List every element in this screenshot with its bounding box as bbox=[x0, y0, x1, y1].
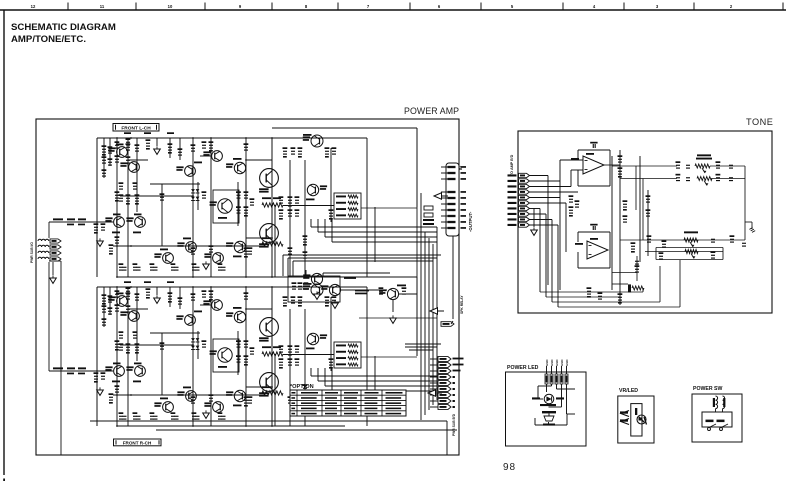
transistor Q13 vas top ch1 bbox=[311, 284, 323, 296]
power amp section border bbox=[36, 119, 459, 455]
bias box ch0 bbox=[213, 190, 239, 223]
transistor Q6 ch0 bbox=[185, 166, 196, 177]
svg-text:POWER AMP: POWER AMP bbox=[404, 106, 459, 116]
wire output staircase ch1 bbox=[310, 368, 312, 376]
wire bundle mid bbox=[405, 343, 441, 345]
op-amp U2 bbox=[587, 241, 608, 259]
op-amp U2 feedback loop bbox=[578, 231, 610, 233]
label box FRONT L-CH bbox=[113, 124, 159, 132]
ruler line bbox=[0, 9, 786, 11]
transistor Q31 protect bbox=[311, 273, 322, 284]
svg-text:11: 11 bbox=[100, 4, 105, 9]
svg-text:GND: GND bbox=[550, 360, 554, 366]
svg-text:98: 98 bbox=[503, 462, 516, 473]
relay box ch1 bbox=[334, 342, 361, 368]
resistors top row ch1 bbox=[126, 291, 130, 292]
led D1 bbox=[544, 394, 554, 404]
svg-text:GND: GND bbox=[560, 360, 564, 366]
power transistor Q15 ch0 bbox=[260, 169, 279, 188]
junction dots ch0 bbox=[116, 137, 118, 139]
tone VR603 resistor bbox=[684, 238, 698, 242]
resistors collector ch0 bbox=[283, 151, 287, 152]
svg-text:FRONT R-CH: FRONT R-CH bbox=[123, 441, 152, 446]
junction dots ch1 bbox=[116, 286, 118, 288]
wire emitter bus ch1 bbox=[113, 394, 264, 396]
vr led box bbox=[618, 396, 654, 443]
svg-text:VR/LED: VR/LED bbox=[619, 388, 638, 394]
emitter resistors upper ch1 bbox=[325, 300, 329, 301]
tone VR volume bbox=[632, 286, 644, 290]
resistors top row ch0 bbox=[126, 142, 130, 143]
wire main input lower bbox=[48, 262, 50, 371]
photo device bbox=[542, 411, 556, 413]
option table bbox=[290, 390, 406, 416]
power sw contacts bbox=[706, 420, 714, 423]
pins upper right bbox=[448, 166, 456, 168]
svg-text:*OPTION: *OPTION bbox=[290, 384, 314, 390]
transistor Q2 input B ch0 bbox=[135, 217, 146, 228]
resistors under Q14 ch0 bbox=[279, 200, 283, 201]
wire input ch0 bbox=[49, 221, 113, 223]
transistor Q14 pre driver ch1 bbox=[307, 333, 318, 344]
tone mid components bbox=[569, 199, 573, 200]
capacitor C1 ch1 bbox=[115, 344, 119, 345]
wire verticals ch0 bbox=[103, 138, 105, 170]
resistors extra bottom ch1 bbox=[191, 400, 195, 401]
diode stack ch0 bbox=[191, 189, 195, 192]
ground G1 ch0 bbox=[156, 146, 158, 149]
op-amp U1 bbox=[583, 156, 604, 174]
transistor Q4 ch0 bbox=[129, 162, 140, 173]
wire protect out bbox=[359, 317, 437, 319]
transistor Q33 protect bbox=[387, 288, 398, 299]
transistor Q11 driver ch0 bbox=[234, 241, 245, 252]
power sw inner box bbox=[702, 412, 732, 427]
power sw coils bbox=[716, 396, 718, 409]
tone VR604 resistor bbox=[685, 250, 698, 254]
left page border bbox=[3, 10, 5, 475]
transistor Q8 ch0 bbox=[212, 151, 223, 162]
resistors near bias ch0 bbox=[244, 195, 248, 196]
vr arrows bbox=[621, 411, 629, 417]
resistors input bias ch0 bbox=[102, 149, 106, 150]
transistor Q3 ch0 bbox=[117, 147, 128, 158]
svg-text:POWER SW: POWER SW bbox=[693, 386, 722, 392]
svg-text:B+: B+ bbox=[459, 166, 463, 170]
resistors extra top ch1 bbox=[115, 294, 119, 295]
transistor Q1 input A ch1 bbox=[114, 366, 125, 377]
resistor mid ch0 bbox=[119, 198, 123, 199]
op-amp U1 feedback loop bbox=[578, 149, 610, 151]
wire input ch1 bbox=[49, 370, 113, 372]
ground G left bbox=[52, 275, 54, 278]
wire verticals ch1 bbox=[103, 287, 105, 319]
wire output staircase ch0 bbox=[310, 219, 312, 227]
pin labels lower right bbox=[453, 358, 464, 360]
svg-text:GND: GND bbox=[565, 360, 569, 366]
transistor Q5 current source ch1 bbox=[163, 402, 174, 413]
svg-text:TONE: TONE bbox=[746, 117, 773, 127]
resistors bottom row ch1 bbox=[109, 397, 113, 398]
wire bottom rail ch1 bbox=[117, 425, 345, 427]
ground G1 ch1 bbox=[156, 295, 158, 298]
wire trunk verticals right bbox=[416, 207, 418, 294]
power led bottom wires bbox=[548, 422, 550, 425]
left border bottom mark bbox=[3, 479, 5, 481]
relay box ch0 bbox=[334, 193, 361, 219]
svg-text:AMP/TONE/ETC.: AMP/TONE/ETC. bbox=[11, 34, 86, 45]
transistor Q8 ch1 bbox=[212, 300, 223, 311]
resistor mid ch1 bbox=[119, 347, 123, 348]
wire bundle lower bbox=[90, 420, 447, 422]
thermal resistor TH ch0 bbox=[262, 203, 283, 207]
tone bottom components bbox=[587, 291, 591, 292]
wire coil drop bbox=[60, 261, 62, 455]
svg-text:PWR SUB B'D: PWR SUB B'D bbox=[452, 413, 456, 436]
ground tone right bbox=[745, 221, 752, 223]
transistor Q12 bias ch1 bbox=[218, 348, 232, 362]
vr led circle bbox=[637, 415, 646, 424]
wire protect links bbox=[305, 270, 307, 276]
svg-text:SCHEMATIC DIAGRAM: SCHEMATIC DIAGRAM bbox=[11, 22, 116, 33]
pin labels upper right bbox=[461, 166, 467, 168]
wire collector trunk ch0 bbox=[271, 138, 273, 277]
connector coils PWR bbox=[38, 239, 49, 241]
transistor Q7 ch0 bbox=[186, 242, 197, 253]
transistor Q9 ch0 bbox=[213, 253, 224, 264]
wire left rail ch1 bbox=[96, 287, 98, 426]
wire mid horiz ch1 bbox=[150, 332, 200, 334]
tone out wires upper bbox=[604, 164, 620, 166]
emitter resistors upper ch0 bbox=[325, 151, 329, 152]
tone pin strip bbox=[519, 173, 530, 177]
wire emitter bus ch0 bbox=[113, 245, 264, 247]
transistor Q12 bias ch0 bbox=[218, 199, 232, 213]
resistors input bias ch1 bbox=[102, 298, 106, 299]
resistors extra bottom ch0 bbox=[191, 251, 195, 252]
tone VR601 resistor bbox=[695, 164, 710, 168]
tone mid verticals bbox=[611, 156, 613, 290]
pins lower right bbox=[438, 357, 451, 362]
svg-text:10: 10 bbox=[168, 4, 173, 9]
ground G2 ch0 bbox=[99, 238, 101, 241]
connector strip upper right bbox=[446, 163, 459, 236]
tone right verticals bbox=[744, 166, 746, 240]
svg-text:PWR SUB I/O: PWR SUB I/O bbox=[30, 242, 34, 263]
svg-text:SPK RELAY: SPK RELAY bbox=[460, 295, 464, 314]
wire bundle upper bbox=[283, 254, 441, 256]
diode stack ch1 bbox=[191, 338, 195, 341]
wire top rail ch1 bbox=[97, 286, 367, 288]
tone lower network caps bbox=[647, 239, 651, 240]
resistors extra top ch0 bbox=[115, 145, 119, 146]
thermal resistor TH ch1 bbox=[262, 352, 283, 356]
ground G3 ch0 bbox=[205, 261, 207, 264]
wire bottom rail ch0 bbox=[117, 276, 275, 278]
transistor Q5 current source ch0 bbox=[163, 253, 174, 264]
protection box bbox=[288, 276, 340, 302]
transistor Q6 ch1 bbox=[185, 315, 196, 326]
tone fan wires bbox=[530, 175, 549, 177]
vr inner rect bbox=[631, 404, 642, 436]
svg-text:TO AMP B'D: TO AMP B'D bbox=[510, 154, 514, 176]
tone section border bbox=[518, 131, 772, 313]
resistors near bias ch1 bbox=[244, 344, 248, 345]
transistor Q9 ch1 bbox=[213, 402, 224, 413]
ground G3 ch1 bbox=[205, 410, 207, 413]
transistor Q14 pre driver ch0 bbox=[307, 184, 318, 195]
vr bar bbox=[635, 408, 637, 415]
emitter resistor 0.22 ch0 bbox=[262, 242, 283, 246]
led labels bbox=[532, 397, 540, 399]
transistor Q4 ch1 bbox=[129, 311, 140, 322]
tone wires to opamp bbox=[560, 159, 583, 161]
pin mid right bbox=[441, 322, 454, 327]
arrow mid right bbox=[428, 390, 436, 396]
transistor Q32 protect bbox=[329, 284, 340, 295]
power transistor Q15 ch1 bbox=[260, 318, 279, 337]
transistor Q1 input A ch0 bbox=[114, 217, 125, 228]
transistor Q3 ch1 bbox=[117, 296, 128, 307]
ground G32 bbox=[334, 300, 336, 303]
wire bias bus ch0 bbox=[283, 205, 334, 207]
transistor Q2 input B ch1 bbox=[135, 366, 146, 377]
labels above rail ch0 bbox=[124, 132, 131, 134]
svg-text:GND: GND bbox=[545, 360, 549, 366]
label box FRONT R-CH bbox=[114, 439, 162, 446]
svg-text:POWER LED: POWER LED bbox=[507, 365, 539, 371]
transistor Q10 driver ch1 bbox=[234, 311, 245, 322]
wire bias bus ch1 bbox=[283, 354, 334, 356]
wire top rail ch0 bbox=[97, 137, 367, 139]
resistors collector ch1 bbox=[283, 300, 287, 301]
power led wires bbox=[546, 384, 548, 392]
labels above rail ch1 bbox=[124, 281, 131, 283]
power transistor Q16 ch1 bbox=[260, 373, 279, 392]
wire collector trunk ch1 bbox=[271, 287, 273, 426]
tone VR602 resistor bbox=[697, 177, 712, 181]
resistors under Q14 ch1 bbox=[279, 349, 283, 350]
wire strip to pin bbox=[452, 236, 454, 319]
emitter resistor 0.22 ch1 bbox=[262, 391, 283, 395]
power led box bbox=[506, 372, 587, 446]
tone upper VR label bbox=[697, 154, 711, 156]
ground G33 bbox=[392, 315, 394, 318]
wire second rail ch0 bbox=[272, 127, 417, 129]
ground tone left bbox=[533, 208, 535, 227]
power transistor Q16 ch0 bbox=[260, 224, 279, 243]
svg-text:12: 12 bbox=[31, 4, 36, 9]
transistor Q11 driver ch1 bbox=[234, 390, 245, 401]
wire second rail ch1 bbox=[272, 276, 417, 278]
ground G31 bbox=[316, 291, 318, 294]
resistors protect bbox=[292, 286, 296, 287]
svg-text:FRONT L-CH: FRONT L-CH bbox=[121, 126, 151, 132]
transistor Q10 driver ch0 bbox=[234, 162, 245, 173]
arrow out top bbox=[434, 193, 442, 199]
tone lower VR label bbox=[684, 231, 698, 233]
svg-text:GND: GND bbox=[555, 360, 559, 366]
tone left verticals bbox=[547, 176, 549, 286]
tone bottom wires bbox=[540, 291, 643, 293]
svg-text:-OUTPUT-: -OUTPUT- bbox=[468, 211, 473, 232]
bias box ch1 bbox=[213, 339, 239, 372]
ground G2 ch1 bbox=[99, 387, 101, 390]
capacitor C1 ch0 bbox=[115, 195, 119, 196]
transistor Q7 ch1 bbox=[186, 391, 197, 402]
power sw box bbox=[692, 394, 742, 442]
transistor Q13 vas top ch0 bbox=[311, 135, 323, 147]
resistors bottom row ch0 bbox=[109, 248, 113, 249]
fuse cluster bbox=[424, 206, 433, 210]
wire mid horiz ch0 bbox=[150, 183, 200, 185]
wire left rail ch0 bbox=[96, 138, 98, 277]
tone lower network bbox=[620, 239, 745, 241]
